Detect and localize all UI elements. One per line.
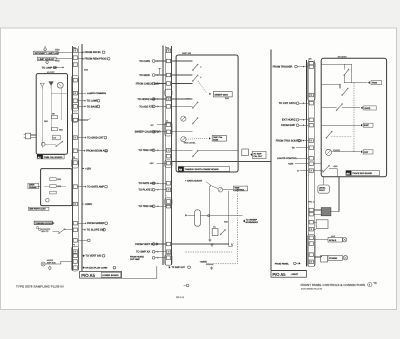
wire — [155, 83, 166, 85]
lamp assy B101 — [314, 239, 328, 241]
node spare — [87, 239, 90, 242]
pin — [73, 161, 77, 165]
connector shield — [321, 208, 331, 216]
svg-text:TRIG LEVEL: TRIG LEVEL — [184, 141, 197, 144]
svg-text:P/O A5: P/O A5 — [272, 272, 286, 277]
svg-text:SN 3XXX: SN 3XXX — [338, 55, 347, 58]
wire — [300, 140, 308, 142]
pin — [73, 99, 77, 103]
wire — [78, 222, 86, 224]
aux connector box — [316, 220, 328, 229]
tube V1 — [46, 199, 49, 202]
switch S30D — [193, 118, 198, 124]
wire — [314, 209, 321, 211]
transformer T1 twisted pair — [36, 227, 38, 229]
svg-text:LAMPS COMMON: LAMPS COMMON — [87, 92, 106, 95]
switch S41 — [342, 89, 348, 96]
board A4 label — [346, 170, 351, 175]
svg-text:FROM TRIGGER: FROM TRIGGER — [273, 66, 293, 69]
svg-text:SEE PARTS LIST: SEE PARTS LIST — [29, 208, 46, 211]
svg-text:TYPE 3S76 SAMPLING PLUG-IN: TYPE 3S76 SAMPLING PLUG-IN — [16, 285, 64, 289]
stub — [158, 68, 161, 74]
pin — [309, 236, 313, 240]
wire dashed — [236, 191, 238, 264]
node row — [185, 214, 187, 216]
wire — [228, 191, 230, 247]
front panel boundary — [270, 50, 272, 271]
pin — [309, 162, 313, 166]
svg-text:TO CRT CATH: TO CRT CATH — [279, 102, 296, 105]
wire — [171, 74, 192, 76]
pin — [309, 220, 313, 224]
svg-text:INTENSITY LIMIT ADJ: INTENSITY LIMIT ADJ — [35, 52, 60, 55]
svg-text:TO SLOPE SW: TO SLOPE SW — [87, 229, 105, 232]
pin — [73, 105, 77, 109]
wire — [37, 186, 41, 188]
wire — [31, 137, 37, 139]
wire — [56, 66, 62, 68]
pin — [73, 149, 77, 153]
pin — [166, 73, 170, 77]
wire — [155, 74, 166, 76]
svg-text:+150V: +150V — [85, 203, 93, 206]
wire — [78, 150, 85, 152]
wire — [155, 251, 166, 253]
wire — [122, 266, 157, 278]
connector shell — [165, 89, 172, 96]
wire — [78, 92, 86, 94]
pin — [309, 157, 313, 161]
pin — [166, 182, 170, 186]
svg-text:A4: A4 — [346, 173, 350, 176]
pin — [73, 91, 77, 95]
svg-text:R16: R16 — [55, 60, 60, 63]
svg-text:REG: REG — [225, 97, 230, 100]
board A1 time cal outline — [36, 74, 67, 155]
pin — [73, 221, 77, 225]
wire — [171, 98, 192, 100]
pin — [166, 204, 170, 208]
switch S2 — [221, 230, 226, 235]
svg-text:LOWER BOARD: LOWER BOARD — [102, 274, 119, 277]
connector P1 plug — [25, 133, 30, 139]
tube V4 — [57, 82, 63, 88]
label to sweep — [243, 220, 245, 223]
wire — [171, 150, 192, 152]
relay K2 — [195, 210, 201, 226]
node out — [169, 266, 171, 269]
wire — [299, 102, 308, 104]
wire — [155, 98, 166, 100]
wire — [155, 205, 166, 207]
pin — [309, 208, 313, 212]
svg-text:GATE: GATE — [364, 107, 370, 110]
pin — [309, 123, 313, 127]
pin — [309, 227, 313, 231]
resistor R7 — [52, 128, 58, 131]
pin — [309, 118, 313, 122]
wire — [209, 186, 211, 239]
pin — [309, 146, 313, 150]
svg-text:A1: A1 — [38, 156, 42, 159]
svg-text:FROM SW B1: FROM SW B1 — [85, 51, 102, 54]
wire — [229, 243, 234, 246]
wire — [44, 185, 50, 187]
lamp DS1 — [40, 83, 44, 86]
wire — [82, 168, 84, 170]
wire — [171, 83, 192, 85]
wire — [297, 66, 308, 68]
pin — [309, 101, 313, 105]
svg-text:CAL OUT: CAL OUT — [253, 155, 263, 158]
wire — [50, 89, 52, 131]
wire — [155, 182, 166, 184]
pin — [73, 136, 77, 140]
pin — [166, 82, 170, 86]
capacitor C1 — [212, 229, 218, 236]
svg-text:NORM/MAG: NORM/MAG — [246, 221, 259, 224]
wire — [52, 231, 59, 233]
wire — [60, 88, 62, 120]
svg-text:FROM CHECK +15V: FROM CHECK +15V — [136, 82, 160, 85]
pin — [73, 118, 77, 122]
pin — [166, 49, 170, 53]
connector shell — [308, 61, 316, 100]
pin — [166, 59, 170, 63]
pin — [309, 242, 313, 246]
wire — [155, 105, 166, 107]
wire — [82, 267, 84, 269]
connector shell — [72, 159, 79, 168]
board A2 trigger outline — [41, 169, 72, 206]
wire dashed — [186, 251, 233, 253]
label P/O A5 left — [80, 272, 122, 279]
svg-text:TRIG: TRIG — [372, 82, 378, 85]
switch S43 — [323, 166, 329, 172]
wire — [332, 151, 360, 153]
wire — [155, 243, 166, 245]
pin — [73, 250, 77, 254]
pin — [166, 188, 170, 192]
label P/O A5 right — [271, 271, 306, 278]
relay K10 sweep mag box — [198, 81, 207, 93]
wire — [171, 243, 228, 245]
wire — [156, 162, 165, 164]
tube V2 — [41, 142, 45, 146]
pin — [73, 63, 77, 67]
svg-text:LIMIT ADJUST: LIMIT ADJUST — [38, 58, 54, 61]
svg-text:TO PLATE 2: TO PLATE 2 — [138, 189, 153, 192]
switch S30B — [193, 75, 198, 81]
resistor R5 — [52, 116, 58, 119]
wire — [78, 105, 85, 107]
svg-text:+GRAT: +GRAT — [291, 273, 299, 276]
pin — [166, 200, 170, 204]
svg-text:RB 3-14: RB 3-14 — [176, 296, 185, 299]
wire — [155, 60, 166, 62]
wire — [171, 131, 192, 133]
ground — [211, 266, 213, 268]
pin — [166, 161, 170, 165]
switch S41B — [337, 104, 343, 110]
svg-text:TRIGGER PICKOFF: TRIGGER PICKOFF — [35, 222, 55, 225]
wire — [155, 131, 166, 133]
label time control — [233, 186, 247, 191]
svg-text:POWER: POWER — [329, 257, 338, 260]
connector shell — [165, 122, 172, 136]
wire — [56, 58, 72, 60]
svg-text:TIME CAL BOARD: TIME CAL BOARD — [44, 156, 63, 159]
board A3 sweep outline — [176, 55, 238, 172]
svg-text:+ GATE ADJUST: + GATE ADJUST — [185, 179, 203, 182]
wire — [78, 100, 85, 102]
pin — [73, 228, 77, 232]
wire — [31, 134, 37, 136]
junction — [208, 215, 210, 217]
board edge net — [81, 44, 83, 271]
board edge net middle — [162, 46, 164, 265]
wire — [321, 124, 360, 126]
connector J11 strip — [165, 46, 167, 265]
connector J20 strip — [307, 60, 309, 266]
board A3 label — [178, 166, 184, 171]
label crt — [360, 150, 362, 153]
pot R20 intensity limit — [44, 47, 47, 51]
pin — [166, 256, 170, 260]
pin — [309, 62, 313, 66]
label trigger pickoff — [34, 221, 52, 224]
svg-text:V4 CKT: V4 CKT — [47, 71, 55, 74]
resistor R38 — [50, 191, 56, 194]
svg-text:CONTROL: CONTROL — [234, 189, 245, 192]
level control — [318, 185, 329, 193]
wire — [323, 177, 325, 185]
svg-text:ADJ C2: ADJ C2 — [41, 230, 49, 233]
pin — [166, 250, 170, 254]
svg-text:CRT: CRT — [364, 151, 369, 154]
svg-text:FROM REM PROG: FROM REM PROG — [85, 58, 107, 61]
ground — [211, 243, 213, 245]
svg-text:SCALE: SCALE — [329, 239, 337, 242]
wire — [82, 203, 83, 205]
wire — [82, 229, 85, 231]
svg-text:FROM SWP: FROM SWP — [281, 124, 295, 127]
wire — [198, 150, 239, 152]
svg-text:TO GRID: TO GRID — [139, 74, 150, 77]
wire — [78, 186, 86, 188]
connector shell — [165, 255, 172, 266]
svg-text:TO SWP XX: TO SWP XX — [136, 251, 150, 254]
switch SW4 — [59, 229, 65, 233]
resistor R33 — [50, 178, 56, 181]
wire — [78, 58, 83, 60]
pin — [309, 260, 313, 264]
svg-text:LIGHTS CONTROL: LIGHTS CONTROL — [277, 157, 298, 160]
lamp DS2 — [49, 82, 54, 86]
resistor R36 — [50, 185, 56, 188]
cal box R140 — [186, 137, 207, 140]
wire — [171, 105, 192, 107]
wire — [314, 221, 316, 223]
wire — [299, 119, 308, 121]
wire — [299, 124, 308, 126]
terminal board TB1 — [242, 149, 249, 156]
pin — [73, 239, 77, 243]
pin — [166, 149, 170, 153]
wire — [155, 257, 166, 259]
svg-text:+15V: +15V — [185, 97, 191, 100]
pin — [73, 78, 77, 82]
wire — [82, 255, 84, 257]
wire — [321, 63, 352, 65]
pin — [73, 254, 77, 257]
label gate — [361, 106, 363, 109]
svg-text:CONT: CONT — [319, 189, 326, 192]
wire — [51, 92, 67, 94]
svg-text:OUT AMP: OUT AMP — [130, 258, 140, 261]
pot R16 limit adjust — [37, 57, 56, 60]
svg-text:SWP: SWP — [364, 124, 370, 127]
pin — [73, 266, 77, 270]
connector shell — [308, 234, 316, 266]
wire — [223, 189, 234, 191]
wire — [321, 107, 336, 109]
connector shell — [165, 160, 172, 168]
pin — [166, 130, 170, 134]
board A1 label — [37, 154, 43, 159]
wire — [321, 83, 340, 85]
svg-text:TO BASE: TO BASE — [87, 105, 98, 108]
node out2 — [184, 284, 186, 286]
pin — [73, 56, 77, 60]
svg-text:FRONT PANEL CONTROLS & CONNECT: FRONT PANEL CONTROLS & CONNECTORS — [301, 283, 365, 287]
svg-text:TO VERT SIG: TO VERT SIG — [85, 255, 101, 258]
pin — [166, 123, 170, 127]
label to swp — [250, 153, 252, 156]
wire — [314, 163, 321, 165]
wire — [351, 64, 353, 82]
svg-text:3S76 SERIES PLUG IN: 3S76 SERIES PLUG IN — [301, 287, 323, 290]
pin — [309, 93, 313, 97]
svg-text:SWP SW: SWP SW — [182, 52, 192, 55]
wire — [211, 186, 218, 189]
pin — [309, 139, 313, 143]
svg-text:TR: TR — [373, 282, 377, 285]
wire — [41, 89, 43, 148]
wire — [155, 149, 166, 151]
ground — [209, 238, 211, 240]
capacitor C9 — [53, 135, 61, 140]
connector shell — [72, 113, 79, 122]
svg-text:SIGNAL: SIGNAL — [206, 263, 214, 266]
pin — [309, 65, 313, 69]
svg-text:R140: R140 — [213, 139, 219, 142]
wire — [314, 170, 323, 172]
wire — [343, 75, 345, 82]
svg-text:TO TRIG SW: TO TRIG SW — [138, 205, 154, 208]
svg-text:SWEEP MAG: SWEEP MAG — [214, 93, 228, 96]
pin — [73, 49, 77, 53]
svg-text:+15V: +15V — [288, 163, 294, 166]
svg-text:FRAME: FRAME — [29, 186, 37, 189]
board A4 trace sep outline — [321, 58, 386, 177]
label sweep — [360, 124, 362, 127]
svg-text:TRACE SEP BOARD: TRACE SEP BOARD — [352, 172, 372, 175]
pin — [73, 185, 77, 189]
svg-text:TO ADJ R76: TO ADJ R76 — [139, 105, 154, 108]
switch S40 — [343, 64, 345, 69]
wire — [58, 52, 72, 54]
switch S30A — [193, 65, 198, 71]
wire stub — [78, 119, 88, 121]
wire — [78, 137, 86, 139]
pin — [309, 253, 313, 257]
pot R120 — [181, 116, 186, 121]
pin — [309, 212, 313, 216]
pin — [166, 97, 170, 101]
svg-text:TO LAMP: TO LAMP — [87, 100, 98, 103]
connector shell — [165, 198, 172, 206]
svg-text:-15V: -15V — [149, 162, 154, 165]
svg-text:P/O J1: P/O J1 — [309, 200, 316, 203]
label trigger — [368, 81, 370, 84]
pin — [73, 260, 77, 264]
svg-text:+15V: +15V — [333, 165, 338, 168]
wire — [65, 229, 73, 231]
svg-text:FROM SWEEP: FROM SWEEP — [87, 222, 105, 225]
switch S30E — [193, 151, 198, 157]
svg-text:R20: R20 — [55, 48, 60, 51]
node R48 HF limit — [41, 262, 45, 266]
svg-text:FROM PANEL: FROM PANEL — [275, 262, 290, 265]
board edge net right — [306, 60, 308, 267]
svg-text:TIME/DIV SWITCH SWEEP BOARD: TIME/DIV SWITCH SWEEP BOARD — [185, 168, 219, 171]
wire — [171, 60, 192, 62]
pin — [73, 202, 77, 206]
wire — [329, 168, 337, 170]
svg-text:TO GATE AMP: TO GATE AMP — [87, 186, 104, 189]
switch S30C — [193, 102, 198, 108]
pin — [166, 242, 170, 246]
wire — [157, 124, 166, 126]
wire — [338, 177, 340, 212]
svg-text:DR XXX PLUG CONN: DR XXX PLUG CONN — [85, 267, 107, 270]
wire — [78, 51, 83, 53]
svg-text:TO GRID CRT: TO GRID CRT — [87, 137, 104, 140]
svg-text:+15V: +15V — [85, 167, 91, 170]
pot R125 — [181, 137, 186, 142]
wire dashed — [353, 83, 355, 152]
wire — [45, 261, 72, 264]
svg-text:TO CATH: TO CATH — [139, 60, 150, 63]
lamp assy B102 — [314, 256, 320, 258]
wire dashed — [213, 263, 237, 265]
connector shell — [72, 75, 79, 111]
switch S42 — [326, 132, 331, 138]
wire — [171, 161, 271, 163]
wire — [45, 144, 56, 146]
pin — [166, 105, 170, 109]
svg-text:P/O A5: P/O A5 — [81, 273, 95, 278]
connector shell — [72, 246, 79, 271]
wire — [187, 214, 194, 216]
svg-text:A3: A3 — [179, 169, 183, 172]
svg-text:TO SWP: TO SWP — [253, 152, 262, 155]
wire — [155, 189, 166, 191]
pin — [166, 154, 170, 158]
svg-text:NC: NC — [151, 124, 155, 127]
svg-text:EXT HORIZ: EXT HORIZ — [282, 119, 296, 122]
